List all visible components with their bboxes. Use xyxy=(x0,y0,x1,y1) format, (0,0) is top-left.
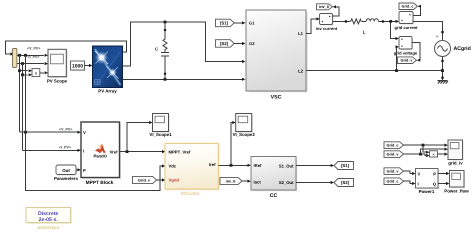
svg-text:inv_0: inv_0 xyxy=(226,180,236,184)
svg-text:[S2]: [S2] xyxy=(220,41,229,46)
svg-text:ACgrid: ACgrid xyxy=(454,46,471,52)
svg-text:Out: Out xyxy=(62,168,70,173)
wire: V_PV vertical down to MPPT xyxy=(19,55,21,132)
wire: I_PV signal to PV Scope xyxy=(17,62,48,65)
subsystem CC current controller xyxy=(251,157,297,200)
svg-text:inv current: inv current xyxy=(316,26,338,31)
goto tag [inv_0] top xyxy=(317,4,333,10)
wire: I_PV vertical down to MPPT xyxy=(22,64,24,151)
svg-text:powergui: powergui xyxy=(37,225,60,231)
svg-text:MPPT_Vref: MPPT_Vref xyxy=(169,150,191,155)
svg-text:Grid_v: Grid_v xyxy=(386,170,399,174)
wire: V_PV into MPPT V input xyxy=(20,131,81,134)
wire: Grid_c to Power1 I xyxy=(404,181,416,185)
svg-text:Power1: Power1 xyxy=(419,189,435,194)
from tag [Grid_v] near DC link xyxy=(133,176,157,183)
wire: grid voltage + branch xyxy=(391,21,396,38)
svg-text:Iact: Iact xyxy=(254,180,262,185)
goto tag [Grid_c] xyxy=(399,3,418,10)
scope grid_iv xyxy=(448,140,464,166)
wire: Power1 P to Power_flow in1 xyxy=(438,172,449,175)
svg-text:Grid_v: Grid_v xyxy=(386,153,399,157)
node: RL branch right terminal xyxy=(382,20,385,23)
wire: MPPT Vref to DC link controller xyxy=(120,150,166,153)
svg-text:CC: CC xyxy=(270,193,278,199)
svg-text:Grid_v: Grid_v xyxy=(138,179,151,183)
svg-text:V: V xyxy=(83,130,86,135)
node: DC+ junction at C branch xyxy=(164,21,167,24)
svg-text:G2: G2 xyxy=(249,41,255,46)
wire: Grid_c to grid_iv in1 xyxy=(404,144,448,147)
svg-text:VSC: VSC xyxy=(271,94,282,100)
svg-text:VI_Scope2: VI_Scope2 xyxy=(233,132,256,137)
svg-text:Parameters: Parameters xyxy=(54,176,78,181)
node: junction with L2 rail xyxy=(441,69,444,72)
subsystem VSC xyxy=(246,10,308,100)
svg-text:<V_PV>: <V_PV> xyxy=(27,47,40,51)
wire: [S2] to VSC G2 xyxy=(234,42,245,45)
svg-text:S2_Out: S2_Out xyxy=(279,180,294,185)
node: Vref junction to VI_Scope1 xyxy=(126,150,129,153)
scope Power_flow xyxy=(444,171,469,194)
capacitor branch C xyxy=(155,22,169,79)
wire: V_PV signal to PV Scope xyxy=(17,54,48,57)
from tag [Grid_v] to grid_iv xyxy=(384,151,404,158)
scope PV Scope xyxy=(47,49,68,83)
wire: Parameters to MPPT P input xyxy=(76,168,81,171)
wire: V branch into product in1 xyxy=(20,69,33,72)
wire: AC bottom to rail and ground xyxy=(442,57,444,81)
svg-text:I: I xyxy=(83,148,84,153)
from tag [inv_0] near CC xyxy=(220,177,242,184)
node: V_PV junction xyxy=(18,54,21,57)
from tag [S1] xyxy=(216,19,235,27)
wire: I branch into product in2 xyxy=(23,73,33,76)
from tag [Grid_v] to Power1 xyxy=(384,168,404,175)
node: AC- terminal dot xyxy=(441,60,444,63)
svg-text:VI_Scope1: VI_Scope1 xyxy=(149,132,172,137)
goto tag [Grid_v] xyxy=(398,57,417,64)
svg-text:[S1]: [S1] xyxy=(220,20,229,25)
wire: Vref branch up to VI_Scope1 xyxy=(127,121,153,152)
wire: inv current to grid current electrical xyxy=(333,20,351,22)
current measurement inv current xyxy=(316,14,338,32)
bus selector BS1 xyxy=(13,49,17,68)
svg-text:<I_PV>: <I_PV> xyxy=(59,146,71,150)
wire: Iref branch up to VI_Scope2 xyxy=(231,121,236,165)
scope VI_Scope1 xyxy=(149,114,172,138)
wire: Grid_v to Power1 V xyxy=(404,171,416,175)
svg-text:L: L xyxy=(363,30,366,35)
svg-text:S1_Out: S1_Out xyxy=(279,163,294,168)
svg-text:Vgnd: Vgnd xyxy=(169,178,180,183)
svg-text:+: + xyxy=(436,34,439,39)
svg-text:grid_iv: grid_iv xyxy=(448,161,463,166)
wire: PV- bottom rail into VSC n xyxy=(123,78,246,81)
node: grid voltage - junction xyxy=(395,69,398,72)
wire: I_PV into MPPT I input xyxy=(23,149,81,152)
scope VI_Scope2 xyxy=(233,114,256,138)
wire: [Grid_v] to Vgnd input xyxy=(157,178,166,181)
ground symbol xyxy=(437,81,448,84)
outport block Parameters xyxy=(54,165,78,181)
svg-text:[S2]: [S2] xyxy=(341,180,350,185)
svg-text:C: C xyxy=(155,47,158,52)
svg-text:×: × xyxy=(432,152,435,157)
wire: product2 to grid_iv in3 xyxy=(438,153,448,156)
svg-text:grid current: grid current xyxy=(395,25,419,30)
wire: Power1 Q to Power_flow in2 xyxy=(438,182,449,185)
wire: [S1] to VSC G1 xyxy=(234,21,245,24)
svg-text:DCLink1: DCLink1 xyxy=(181,191,200,196)
svg-text:Grid_c: Grid_c xyxy=(386,180,398,184)
wire: grid voltage signal to goto [Grid_v] xyxy=(412,43,420,61)
svg-text:I: I xyxy=(418,182,419,187)
svg-text:Grid_c: Grid_c xyxy=(386,144,398,148)
svg-text:iRef: iRef xyxy=(254,163,263,168)
goto tag [S2] xyxy=(334,179,354,187)
power measurement block Power1 xyxy=(416,169,440,195)
wire: Grid_v branch to grid_iv in2 xyxy=(421,148,448,155)
from tag [Grid_c] to Power1 xyxy=(384,178,404,185)
node: junction to grid voltage + xyxy=(389,20,392,23)
wire: inv current signal to goto [inv_0] xyxy=(333,7,339,16)
svg-text:Grid_v: Grid_v xyxy=(400,59,413,63)
node: I_PV junction xyxy=(21,62,24,65)
svg-text:grid voltage: grid voltage xyxy=(394,50,418,55)
node: I branch to product xyxy=(21,73,24,76)
wire: grid current to AC grid top xyxy=(413,21,443,40)
current measurement grid current xyxy=(395,12,419,31)
goto tag [S1] xyxy=(334,162,354,170)
AC source ACgrid xyxy=(435,41,471,57)
wire: Vdc long feedback to DC link controller xyxy=(26,55,163,190)
wire: PV Array m output loop back to Bus Selector xyxy=(6,41,127,56)
resistor R of RL branch xyxy=(351,19,362,24)
svg-text:P: P xyxy=(433,171,436,176)
svg-text:MPPT Block: MPPT Block xyxy=(86,180,114,186)
wire: grid voltage - branch xyxy=(396,47,397,71)
svg-text:2e-05 s.: 2e-05 s. xyxy=(39,217,59,223)
PV Array block xyxy=(93,46,123,93)
svg-text:PV Array: PV Array xyxy=(98,88,117,93)
svg-text:Power_flow: Power_flow xyxy=(444,189,469,194)
node: ground terminal dot xyxy=(441,76,444,79)
svg-text:Vref: Vref xyxy=(110,150,119,155)
wire: Grid_v to product2 in2 xyxy=(404,154,430,157)
svg-text:1000: 1000 xyxy=(72,64,83,70)
wire: VSC L2 to AC bottom rail xyxy=(306,70,443,72)
powergui block xyxy=(26,208,72,232)
svg-text:[S1]: [S1] xyxy=(341,163,350,168)
subsystem DC link controller (highlighted) xyxy=(165,143,220,196)
node: Grid_v junction xyxy=(419,153,422,156)
MATLAB logo xyxy=(95,145,106,153)
product block grid power xyxy=(430,151,438,157)
svg-text:PV Scope: PV Scope xyxy=(47,78,68,83)
MATLAB function block MPPT Block xyxy=(81,122,121,186)
wire: Iref to CC iRef xyxy=(219,164,251,167)
node: Grid_c junction xyxy=(422,144,425,147)
wire: S2_Out to goto [S2] xyxy=(296,181,334,184)
node: Iref junction to VI_Scope2 xyxy=(230,164,233,167)
node: DC- junction at C branch xyxy=(164,78,167,81)
wire: Grid_c branch to product2 in1 xyxy=(423,145,430,154)
wire: product output to PV Scope in3 xyxy=(40,71,48,74)
node: AC+ terminal dot xyxy=(441,31,444,34)
product block P=V*I xyxy=(32,69,40,77)
inductor L of RL branch xyxy=(363,19,379,35)
svg-text:Vdc: Vdc xyxy=(169,163,177,168)
from tag [S2] xyxy=(216,40,235,48)
svg-text:L2: L2 xyxy=(298,69,304,74)
svg-text:Iref: Iref xyxy=(209,162,216,167)
node: Vdc branch junction xyxy=(24,131,27,134)
node: V branch to product xyxy=(18,69,21,72)
constant block 1000 xyxy=(71,61,86,71)
wire: irradiance constant into PV Array xyxy=(85,64,93,67)
wire: [inv_0] to CC Iact xyxy=(242,180,251,183)
svg-text:P: P xyxy=(83,168,86,173)
wire: grid current signal to goto [Grid_c] xyxy=(413,6,421,15)
from tag [Grid_c] to grid_iv xyxy=(384,142,404,149)
svg-text:×: × xyxy=(34,71,37,77)
voltage measurement grid voltage xyxy=(394,37,418,56)
svg-text:L1: L1 xyxy=(298,31,304,36)
svg-text:PandO: PandO xyxy=(93,154,107,159)
svg-text:inv_0: inv_0 xyxy=(319,5,329,9)
svg-text:G1: G1 xyxy=(249,21,255,26)
svg-text:<V_PV>: <V_PV> xyxy=(59,128,72,132)
wire: PV+ to DC top rail into VSC p xyxy=(123,22,246,66)
wire: VSC L1 to inv current measurement xyxy=(306,19,317,34)
svg-text:<I_PV>: <I_PV> xyxy=(28,55,40,59)
svg-text:Grid_c: Grid_c xyxy=(401,5,413,9)
wire: S1_Out to goto [S1] xyxy=(296,164,334,167)
node: RL branch left terminal xyxy=(345,20,348,23)
node: Vdc tap on V wire xyxy=(24,54,27,57)
svg-text:V: V xyxy=(418,171,421,176)
svg-text:Discrete: Discrete xyxy=(38,211,59,217)
